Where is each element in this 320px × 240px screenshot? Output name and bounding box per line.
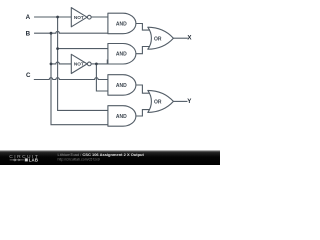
svg-text:C: C <box>26 72 31 79</box>
wire B' branch down to AND3 bottom input <box>96 64 108 91</box>
and-gate U1 (AND1) <box>108 13 136 34</box>
wire NOT2 input from B vertical (hop over A vertical) <box>51 62 71 64</box>
junction NOT2 output <box>95 63 98 66</box>
CircuitLab logo <box>9 154 39 162</box>
svg-text:NOT: NOT <box>74 62 84 67</box>
wire A to NOT1 <box>35 16 71 18</box>
svg-text:NOT: NOT <box>74 15 84 20</box>
svg-text:LithiumToad / CSC 106 Assignme: LithiumToad / CSC 106 Assignment 2 X Out… <box>58 152 145 157</box>
wire AND2 output to OR1 bottom input <box>136 47 150 54</box>
wire AND3 output to OR2 top input <box>136 85 150 93</box>
and-gate U2 (AND2) <box>108 44 136 65</box>
svg-text:A: A <box>26 14 31 21</box>
wire A vertical branch to AND2/AND4 <box>58 17 109 110</box>
wire NOT1 output to AND1 <box>92 16 109 18</box>
svg-text:B: B <box>26 30 31 37</box>
wire B vertical branch to NOT2/AND4 <box>51 33 108 125</box>
junction on B line <box>50 32 53 35</box>
inverter NOT1 <box>71 8 87 27</box>
wire A branch to AND2 top input <box>58 48 109 50</box>
wire AND4 output to OR2 bottom input <box>136 110 150 116</box>
svg-text:AND: AND <box>116 114 127 120</box>
or-gate U6 (OR2) <box>148 90 174 112</box>
wire NOT2 output to node <box>92 63 97 65</box>
junction A to AND2 <box>56 47 59 50</box>
wire OR2 output to Y <box>173 100 187 102</box>
wire B to AND1 (hop over A vertical) <box>35 31 109 33</box>
junction B to NOT2 <box>50 63 53 66</box>
junction on A line <box>56 16 59 19</box>
wire AND1 output to OR1 top input <box>136 24 150 31</box>
svg-text:OR: OR <box>154 100 162 106</box>
svg-text:LAB: LAB <box>29 158 39 163</box>
inverter NOT2 <box>71 54 87 73</box>
wire C to AND3 (hops over B and A verticals and B' vertical) <box>34 78 108 80</box>
svg-text:AND: AND <box>116 21 127 27</box>
wire B' to AND2 bottom input <box>96 60 108 64</box>
wire OR1 output to X <box>173 37 187 39</box>
or-gate U5 (OR1) <box>148 27 174 49</box>
svg-text:http://circuitlab.com/c57zx9: http://circuitlab.com/c57zx9 <box>58 158 100 162</box>
and-gate U3 (AND3) <box>108 75 136 96</box>
svg-text:AND: AND <box>116 83 127 89</box>
svg-text:OR: OR <box>154 36 162 42</box>
svg-text:AND: AND <box>116 52 127 58</box>
and-gate U4 (AND4) <box>108 106 136 127</box>
